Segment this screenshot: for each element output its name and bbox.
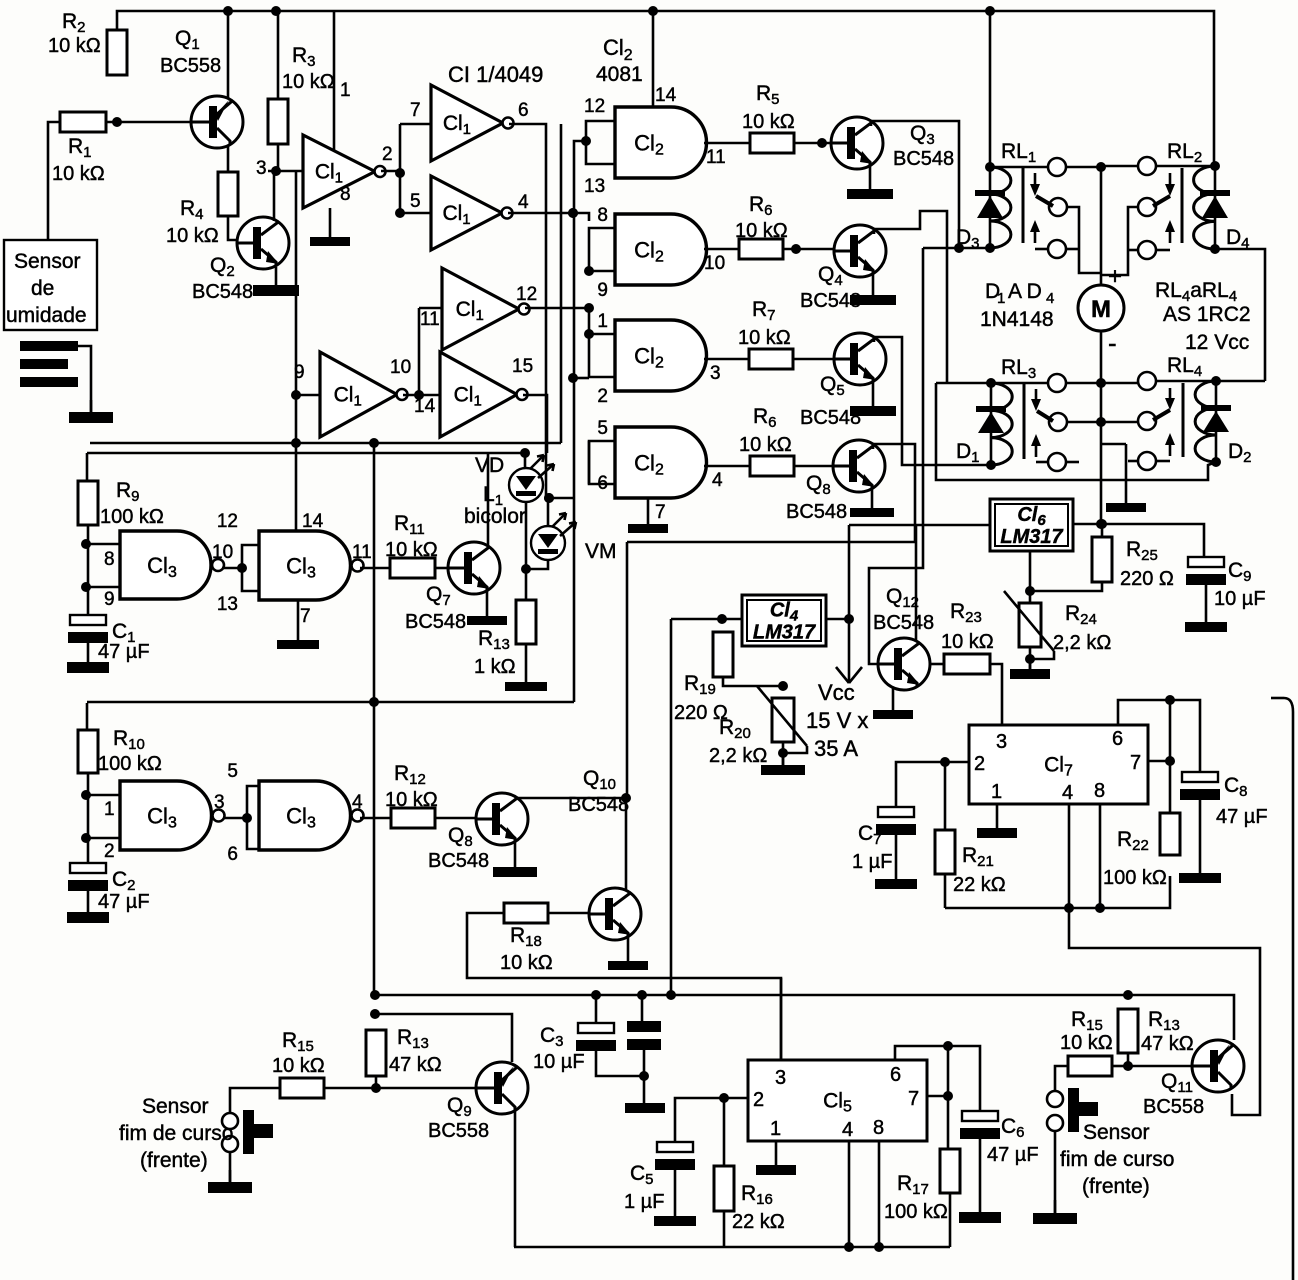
svg-text:7: 7 [655, 502, 666, 523]
wire R16 top [723, 1098, 726, 1166]
wire gate1 out [704, 142, 750, 145]
svg-text:13: 13 [217, 594, 238, 615]
svg-text:10 kΩ: 10 kΩ [941, 631, 994, 653]
ground Q8a emitter [850, 489, 894, 517]
ground CI1-1 pin8 [310, 208, 350, 246]
node pin7/R17 [943, 1091, 953, 1101]
svg-text:10 µF: 10 µF [533, 1051, 585, 1073]
wire Q9 branch [375, 1014, 512, 1062]
wire R24 bottom [1029, 647, 1032, 669]
inverter CI1 b (pins 7-6) [431, 85, 514, 161]
ground Q5 emitter [850, 382, 896, 416]
wire rail to RL1 coil [989, 11, 992, 167]
wire R3 bottom to CI1 input [277, 144, 280, 171]
svg-text:1: 1 [991, 781, 1002, 803]
ground C2 [67, 891, 109, 923]
wire R22 top [1169, 761, 1172, 813]
node R25 top [1097, 519, 1107, 529]
transistor Q1 BC558 [191, 96, 243, 148]
relay RL4 core bar [1182, 383, 1185, 457]
wire Q1 emitter to R4 [227, 146, 230, 172]
right margin bracket curve [1284, 698, 1293, 1280]
wire R13b bottom [375, 1076, 378, 1088]
wire R3 top to rail [277, 11, 280, 99]
node RL2 coil top [1210, 161, 1220, 171]
wire CI7 pin6 loop [1118, 700, 1200, 772]
node inv12 to gate3 [584, 303, 594, 313]
wire RL1 NC stub [1066, 248, 1079, 251]
svg-text:2,2 kΩ: 2,2 kΩ [709, 745, 767, 767]
resistor R17 [940, 1149, 960, 1193]
contact RL4 NO [1138, 412, 1156, 430]
wire left relay rail [936, 383, 1216, 480]
ground R24 [1010, 659, 1050, 679]
resistor R2 [107, 30, 127, 75]
node rail x671 [666, 990, 676, 1000]
node NAND1 out [237, 563, 247, 573]
wire CI7 pin8 down [1099, 804, 1102, 908]
wire R25 top stub [1101, 524, 1104, 537]
wire gate4 out [704, 465, 750, 468]
wire NAND1 area bottom [87, 701, 574, 704]
svg-text:2: 2 [104, 841, 115, 862]
svg-text:1N4148: 1N4148 [980, 308, 1054, 331]
node gate3 bracket top [584, 329, 594, 339]
pushbutton right sensor [1068, 1088, 1098, 1132]
svg-text:35 A: 35 A [814, 736, 858, 761]
wire R20 wiper [783, 746, 807, 753]
wire Q3 collector to RL1 [871, 121, 959, 248]
svg-text:7: 7 [410, 100, 421, 121]
svg-text:4: 4 [842, 1119, 853, 1141]
node pin6/R17 [943, 1041, 953, 1051]
ground Q3 emitter [847, 166, 893, 199]
wire R17 top [947, 1096, 950, 1149]
wire RL2RL4 right link [1215, 249, 1265, 381]
ground Q4 emitter [850, 274, 896, 305]
wire gate2 out [704, 248, 739, 251]
node Q11 base node [1123, 1061, 1133, 1071]
wire RL4 top row [1156, 380, 1265, 383]
wire motor bottom row [1066, 382, 1138, 385]
IC CI4 LM317 [742, 595, 826, 646]
wire Q12 riser [869, 248, 923, 664]
sensor right contact B [1047, 1115, 1063, 1131]
svg-text:LM317: LM317 [753, 622, 816, 644]
wire gate4 bracket [589, 441, 615, 484]
ground Q12 emitter [873, 688, 913, 719]
svg-text:7: 7 [908, 1088, 919, 1110]
node top rail / RL1 supply [985, 6, 995, 16]
NAND gate CI3 a [120, 531, 224, 599]
wire R1 to Q1 base [106, 121, 191, 124]
wire bus to gate2 bracket [573, 213, 589, 221]
node RL4 coil top [1211, 376, 1221, 386]
wire R7 to Q5 [793, 358, 834, 361]
svg-text:6: 6 [597, 473, 608, 494]
wire R15 to base node [324, 1087, 376, 1090]
wire motor minus lead [1100, 331, 1103, 524]
wire Q10 collector [625, 798, 628, 891]
wire R21 top [944, 762, 947, 830]
svg-text:47 kΩ: 47 kΩ [1141, 1033, 1194, 1055]
svg-text:100 kΩ: 100 kΩ [100, 506, 164, 528]
node motor- top row [1096, 378, 1106, 388]
wire line A [90, 442, 561, 445]
svg-text:47 µF: 47 µF [987, 1144, 1039, 1166]
svg-text:10 kΩ: 10 kΩ [282, 71, 335, 93]
node RL4 coil bottom [1211, 457, 1221, 467]
IC CI7 [969, 725, 1148, 804]
wire R12 to Q8 [435, 817, 476, 820]
relay RL2 coil [1194, 166, 1215, 249]
svg-text:100 kΩ: 100 kΩ [884, 1201, 948, 1223]
wire R17 bottom [949, 1193, 952, 1247]
wire inv-12 output [525, 307, 589, 310]
wire x374 vertical [373, 443, 376, 995]
wire NAND1 pin8 stub [86, 543, 120, 546]
wire CI6 input [849, 524, 990, 527]
svg-text:3: 3 [710, 363, 721, 384]
wire CI5 pin2 [675, 1098, 748, 1142]
resistor R4 [218, 172, 238, 216]
wire R16 bottom [723, 1211, 726, 1247]
wire CI5 pin6 loop [895, 1046, 980, 1111]
wire line B [87, 453, 525, 470]
inverter CI1 f (pins 14-15) [440, 352, 528, 437]
potentiometer R24 [1001, 583, 1054, 651]
node R20 bottom [778, 748, 788, 758]
resistor R19 [713, 632, 733, 677]
node pin8 rail [1095, 903, 1105, 913]
node pin4 rail [1064, 903, 1074, 913]
node CI6 out / motor [1096, 519, 1106, 529]
node NAND3 in2 [81, 833, 91, 843]
svg-text:10: 10 [704, 253, 725, 274]
node C3C4 junction [639, 1071, 649, 1081]
wire R9 to NAND1 [87, 525, 90, 598]
svg-text:BC548: BC548 [428, 850, 489, 872]
svg-text:bicolor: bicolor [464, 505, 526, 528]
diode D3 [975, 190, 1005, 218]
svg-text:6: 6 [518, 100, 529, 121]
wire Q4 collector route [874, 211, 947, 383]
wire NAND1 out [222, 567, 242, 570]
wire R21 bottom [944, 874, 947, 908]
wire NAND2 out [360, 567, 390, 570]
node R24 bottom [1025, 654, 1035, 664]
resistor R15b [1068, 1056, 1112, 1076]
relay RL4 armature [1153, 388, 1175, 461]
svg-text:4: 4 [712, 470, 723, 491]
svg-text:de: de [31, 277, 54, 300]
sensor electrode plates [20, 341, 78, 387]
wire inv6 out to line A [560, 124, 563, 443]
resistor R6b [750, 456, 794, 476]
svg-text:10 kΩ: 10 kΩ [48, 35, 101, 57]
wire gate3 bracket [589, 334, 615, 377]
capacitor C8 [1180, 772, 1220, 800]
contact RL2 NO [1138, 198, 1156, 216]
wire CI1 pin1 supply [333, 11, 336, 150]
svg-text:9: 9 [597, 280, 608, 301]
wire CI5 pin7 [927, 1095, 948, 1098]
node pin2/R21 [940, 757, 950, 767]
wire Q12 collector [915, 525, 918, 642]
wire right sensor ground [1054, 1131, 1057, 1213]
relay RL3 core bar [1023, 384, 1026, 459]
wire Q12 to R23 [930, 663, 944, 666]
node pin2/R16 [719, 1093, 729, 1103]
svg-text:10 kΩ: 10 kΩ [735, 220, 788, 242]
node pin8 rail5 [874, 1242, 884, 1252]
svg-text:4: 4 [518, 192, 529, 213]
wire R15 to sensor [230, 1088, 280, 1113]
wire CI6 adj [1029, 551, 1032, 591]
svg-text:1: 1 [997, 290, 1005, 307]
wire CI5 pin8 down [878, 1141, 881, 1247]
svg-text:(frente): (frente) [140, 1149, 208, 1172]
wire pin6-pin7 link [947, 1046, 950, 1096]
capacitor C4 (plates) [627, 1021, 661, 1050]
diode D2 [1201, 405, 1231, 432]
wire bus CI1 input to NAND [295, 171, 298, 531]
wire sensor electrode lead [78, 346, 91, 412]
wire C1 link [87, 598, 90, 615]
svg-text:47 µF: 47 µF [1216, 806, 1268, 828]
node Q4 base [791, 244, 801, 254]
svg-text:22 kΩ: 22 kΩ [732, 1211, 785, 1233]
svg-text:1: 1 [340, 80, 351, 101]
transistor Q8 BC548 [476, 793, 528, 845]
node CI4 out Vcc [844, 614, 854, 624]
capacitor C2 [68, 863, 108, 891]
svg-text:12: 12 [584, 96, 605, 117]
contact RL2 NC [1138, 241, 1156, 259]
diode D1 [976, 406, 1006, 433]
capacitor C9 [1186, 557, 1226, 585]
capacitor C5 [655, 1142, 695, 1170]
wire inv3 input [400, 212, 431, 215]
wire RL4 NC stub [1128, 460, 1138, 463]
svg-text:3: 3 [996, 731, 1007, 753]
wire +V top rail [117, 11, 1214, 166]
node inv-4 output bus [568, 208, 578, 218]
wire pin7 to pin6 node [1169, 700, 1172, 761]
diode D4 [1200, 190, 1230, 218]
ground C8 [1179, 800, 1221, 883]
svg-text:9: 9 [104, 589, 115, 610]
wire R18 to Q10 base [548, 912, 589, 915]
wire VD to node [525, 502, 528, 600]
svg-text:3: 3 [775, 1067, 786, 1089]
svg-text:(frente): (frente) [1082, 1175, 1150, 1198]
svg-text:BC558: BC558 [1143, 1096, 1204, 1118]
wire RL1 common to motor+ [1066, 166, 1101, 169]
svg-text:10 kΩ: 10 kΩ [385, 789, 438, 811]
wire inv-4 output to bus [508, 212, 573, 215]
wire Vcc riser [848, 525, 851, 683]
svg-text:5: 5 [227, 761, 238, 782]
node top rail / CI2 pin14 [648, 6, 658, 16]
svg-text:AS 1RC2: AS 1RC2 [1163, 303, 1251, 326]
ground CI7 pin1 [977, 804, 1017, 838]
NAND gate CI3 b [259, 531, 364, 600]
svg-text:12: 12 [516, 284, 537, 305]
wire R13c bottom [1127, 1053, 1130, 1066]
svg-text:VD: VD [475, 454, 504, 477]
capacitor C6 [960, 1111, 1000, 1139]
wire node to Q11 [1128, 1065, 1192, 1068]
node busC g3 tap [568, 373, 578, 383]
wire R19 to R20 [723, 677, 783, 686]
node inv4 output [414, 390, 424, 400]
resistor R13c (47k) [1118, 1009, 1138, 1053]
wire inv5 input [419, 307, 442, 310]
node bottom x374 [369, 697, 379, 707]
wire sensor to ground [229, 1152, 232, 1182]
wire R4 to Q2 base [228, 216, 237, 240]
wire CI5 bottom rail [514, 1246, 950, 1249]
svg-text:2: 2 [382, 144, 393, 165]
node rail C3 [591, 990, 601, 1000]
wire NAND2 bracket [242, 545, 259, 591]
relay RL2 core bar [1181, 168, 1184, 243]
svg-text:11: 11 [352, 542, 372, 563]
node VM top [544, 493, 554, 503]
node rail x375 [370, 990, 380, 1000]
wire bus543 left drop [626, 542, 629, 798]
wire CI6 output [1073, 524, 1204, 557]
wire C4 bottom [643, 1050, 646, 1103]
svg-text:fim de curso: fim de curso [119, 1122, 233, 1145]
wire R6 to Q4 [783, 248, 834, 251]
svg-text:BC548: BC548 [192, 281, 253, 303]
svg-text:1: 1 [770, 1118, 781, 1140]
wire gate2 bracket [589, 228, 615, 271]
node pin6/C8 [1165, 695, 1175, 705]
wire VM bottom [526, 560, 548, 569]
ground NAND2 pin7 [277, 600, 319, 649]
wire inv4 out to inv6 in [403, 394, 440, 397]
motor M [1078, 285, 1124, 331]
wire RL2 common to motor [1101, 165, 1138, 168]
svg-text:4: 4 [352, 792, 363, 813]
wire lineB left drop [86, 453, 89, 481]
node RL1 coil bottom [985, 243, 995, 253]
node bus pin9 tap [291, 390, 301, 400]
wire adj to R24 top [1029, 591, 1032, 603]
sensor de umidade box [4, 240, 97, 330]
ground C1 [67, 643, 109, 673]
wire CI7 pin4 down [1068, 804, 1071, 908]
wire R15b to node [1112, 1065, 1128, 1068]
node NAND3 in1 [81, 790, 91, 800]
svg-text:8: 8 [1094, 780, 1105, 802]
transistor Q12 BC548 [878, 638, 930, 690]
contact RL4 common [1138, 372, 1156, 390]
wire CI5 pin3 up [780, 978, 783, 1060]
LED VD [509, 455, 554, 502]
svg-text:1 µF: 1 µF [624, 1191, 664, 1213]
wire gate3 out [704, 358, 749, 361]
transistor Q5 BC548 [834, 333, 886, 385]
node Q3 base [817, 138, 827, 148]
node motor- mid row [1096, 417, 1106, 427]
svg-text:14: 14 [302, 511, 324, 532]
wire RL2 NC stub [1128, 249, 1138, 252]
wire pin4 to Q11 loop [1069, 908, 1260, 1115]
wire R1 to sensor [48, 122, 60, 240]
svg-text:2: 2 [974, 753, 985, 775]
NAND gate CI3 d [259, 781, 364, 850]
AND gate CI2 c [615, 320, 706, 391]
wire busC tap g3 [573, 377, 589, 380]
resistor R16 [714, 1166, 734, 1211]
wire Q9 collector down [514, 1110, 517, 1247]
resistor R3 [268, 99, 288, 144]
node RL3 coil bottom [986, 460, 996, 470]
node Q9 base node [371, 1083, 381, 1093]
contact RL3 NC [1048, 453, 1066, 471]
relay RL1 coil [990, 167, 1011, 248]
svg-text:220 Ω: 220 Ω [1120, 568, 1174, 590]
wire CI2 pin14 to rail [652, 11, 655, 107]
node lineA x374 [369, 438, 379, 448]
svg-text:10 kΩ: 10 kΩ [739, 434, 792, 456]
ground C5 [654, 1170, 696, 1226]
svg-text:RL4aRL4: RL4aRL4 [1155, 279, 1237, 305]
wire +V lower rail [375, 995, 1234, 1040]
svg-text:10 kΩ: 10 kΩ [272, 1055, 325, 1077]
ground sensor [69, 400, 113, 423]
contact RL4 NC [1138, 452, 1156, 470]
svg-text:100 kΩ: 100 kΩ [1103, 867, 1167, 889]
ground right sensor [1033, 1200, 1077, 1224]
contact RL1 common [1048, 158, 1066, 176]
svg-text:umidade: umidade [6, 304, 87, 327]
node CI1-1 input junction [271, 166, 281, 176]
relay RL1 core bar [1022, 168, 1025, 243]
transistor Q9 BC558 [476, 1062, 528, 1114]
wire Q2 collector up [273, 171, 276, 221]
wire node down to inv2 input [399, 124, 402, 213]
ground Q10 emitter [608, 937, 648, 970]
wire gate4 pin6 from bus [588, 441, 591, 484]
relay RL1 armature [1030, 173, 1053, 249]
capacitor C7 [876, 807, 916, 835]
resistor R1 [60, 112, 106, 132]
wire inv-6 output [509, 124, 546, 498]
svg-text:2,2 kΩ: 2,2 kΩ [1053, 632, 1111, 654]
svg-text:4: 4 [1046, 290, 1054, 307]
LED VM [531, 513, 576, 560]
node RL3 coil top [986, 378, 996, 388]
wire NAND3 out [224, 817, 247, 820]
wire R15b to sensor [1055, 1066, 1068, 1091]
Vcc supply fork [836, 667, 862, 683]
svg-text:-: - [1108, 328, 1117, 358]
wire R10 to NAND3 [87, 773, 90, 849]
svg-text:BC548: BC548 [568, 794, 629, 816]
svg-text:10: 10 [212, 542, 233, 563]
wire gate1 tap to bus C [574, 141, 586, 702]
svg-text:4081: 4081 [596, 63, 643, 86]
svg-text:BC548: BC548 [893, 148, 954, 170]
ground C7 [875, 835, 917, 889]
node LED junction [521, 564, 531, 574]
svg-text:BC548: BC548 [786, 501, 847, 523]
